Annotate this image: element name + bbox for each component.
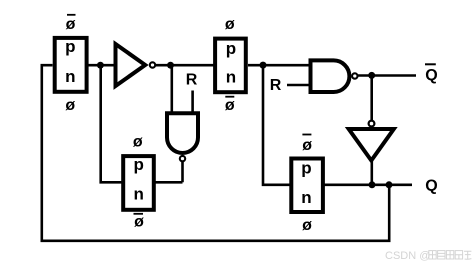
svg-text:n: n	[65, 67, 75, 86]
svg-text:ø: ø	[134, 213, 144, 230]
svg-text:n: n	[301, 188, 311, 207]
svg-text:ø: ø	[66, 16, 76, 33]
svg-text:p: p	[134, 155, 144, 174]
svg-text:ø: ø	[65, 97, 75, 114]
svg-text:Q: Q	[425, 178, 437, 195]
svg-text:n: n	[226, 67, 236, 86]
svg-text:ø: ø	[133, 133, 143, 150]
svg-text:p: p	[65, 37, 75, 56]
svg-text:ø: ø	[302, 217, 312, 234]
svg-text:ø: ø	[225, 97, 235, 114]
svg-text:p: p	[301, 159, 311, 178]
svg-text:R: R	[186, 72, 198, 89]
svg-text:CSDN @: CSDN @	[385, 250, 430, 262]
svg-text:ø: ø	[302, 137, 312, 154]
svg-text:ø: ø	[225, 16, 235, 33]
svg-text:Q: Q	[425, 67, 437, 84]
svg-text:n: n	[134, 185, 144, 204]
svg-text:p: p	[226, 39, 236, 58]
svg-text:R: R	[270, 77, 282, 94]
